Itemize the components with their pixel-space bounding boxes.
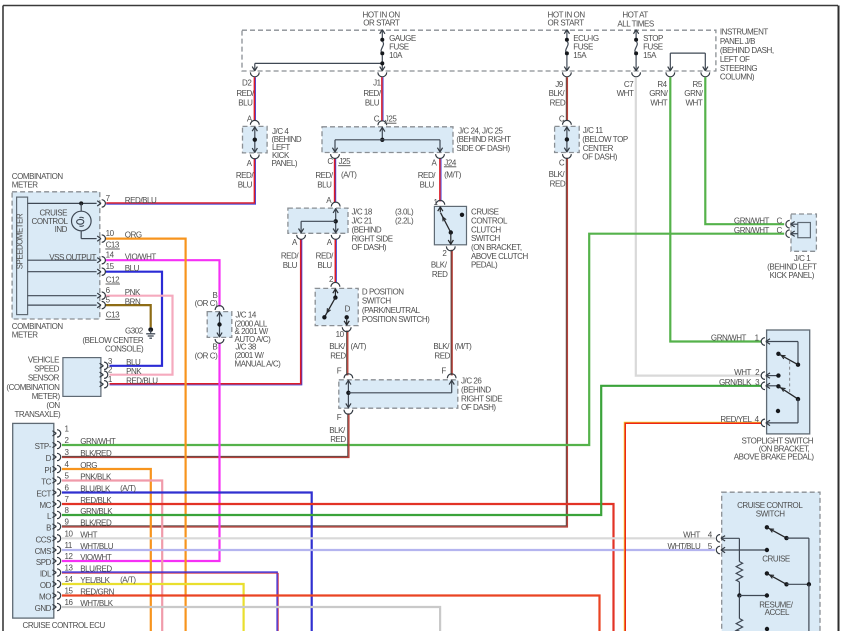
- svg-text:CCS: CCS: [35, 536, 51, 545]
- svg-text:F: F: [441, 367, 446, 376]
- svg-text:CONSOLE): CONSOLE): [105, 345, 144, 354]
- svg-text:VEHICLE: VEHICLE: [28, 356, 59, 365]
- fuse ECU-IG 15A: [563, 30, 599, 77]
- meter pin 14: [97, 251, 156, 264]
- svg-text:SENSOR: SENSOR: [28, 374, 60, 383]
- ECU terminal label D: [46, 454, 52, 463]
- svg-text:10A: 10A: [389, 51, 403, 60]
- svg-text:J9: J9: [555, 80, 564, 89]
- ECU terminal label MC: [39, 501, 51, 510]
- svg-text:BLU: BLU: [125, 264, 140, 273]
- svg-text:J/C 26: J/C 26: [461, 377, 482, 386]
- svg-text:D2: D2: [242, 79, 252, 88]
- wire D2 RED/BLU from J/B to J/C 4: [254, 77, 255, 120]
- ECU pin 16 WHT/BLK: [53, 598, 114, 611]
- svg-text:OF DASH): OF DASH): [461, 403, 496, 412]
- svg-text:F: F: [337, 413, 342, 422]
- wire GRN/WHT from cruise ECU pin 2 up to J/C 1 lower pin C: [62, 234, 784, 445]
- svg-text:(OR C): (OR C): [195, 299, 218, 308]
- speedometer block: [16, 197, 28, 315]
- stoplight switch lower blade: [778, 386, 800, 401]
- svg-text:BRN: BRN: [125, 297, 141, 306]
- svg-text:RED/: RED/: [236, 89, 255, 98]
- svg-text:BLK/: BLK/: [549, 170, 566, 179]
- ECU pin 3 BLK/RED: [53, 448, 112, 461]
- svg-text:ACCEL: ACCEL: [765, 608, 790, 617]
- svg-text:OR START: OR START: [363, 18, 400, 27]
- svg-text:PANEL J/B: PANEL J/B: [720, 37, 755, 46]
- junction connector J/C 26 (BEHIND RIGHT SIDE OF DASH): [329, 367, 502, 445]
- svg-text:(M/T): (M/T): [455, 342, 473, 351]
- svg-text:ORG: ORG: [125, 231, 142, 240]
- svg-text:OD: OD: [40, 581, 52, 590]
- wire label BLK/RED (A/T) above J/C 26 left: [329, 342, 367, 360]
- svg-text:C: C: [777, 226, 783, 235]
- svg-text:RED: RED: [432, 270, 448, 279]
- wire BRN from meter pin 5 to ground G302: [105, 305, 150, 327]
- svg-text:STEERING: STEERING: [720, 64, 758, 73]
- svg-text:CLUTCH: CLUTCH: [471, 225, 501, 234]
- svg-text:10: 10: [65, 529, 74, 538]
- svg-text:(A/T): (A/T): [351, 342, 367, 351]
- svg-text:IDL: IDL: [40, 570, 52, 579]
- ECU terminal label MO: [39, 593, 51, 602]
- svg-text:ABOVE CLUTCH: ABOVE CLUTCH: [471, 252, 529, 261]
- svg-text:RED: RED: [434, 352, 450, 361]
- svg-text:STP-: STP-: [35, 442, 52, 451]
- svg-text:PNK: PNK: [125, 288, 141, 297]
- fuse GAUGE 10A: [378, 30, 416, 77]
- svg-text:WHT: WHT: [80, 530, 97, 539]
- wire RED/BLU (M/T) from J/C 24 to clutch switch pin 1: [440, 158, 441, 201]
- svg-text:14: 14: [106, 251, 115, 260]
- svg-text:POSITION SWITCH): POSITION SWITCH): [362, 315, 430, 324]
- svg-text:GND: GND: [35, 604, 52, 613]
- svg-text:(2.2L): (2.2L): [395, 217, 414, 226]
- svg-text:C13: C13: [106, 240, 120, 249]
- svg-text:RED/BLU: RED/BLU: [125, 196, 157, 205]
- svg-text:YEL/BLK: YEL/BLK: [80, 576, 110, 585]
- ECU terminal label OD: [40, 581, 52, 590]
- svg-text:WHT/BLK: WHT/BLK: [80, 599, 114, 608]
- svg-text:COLUMN): COLUMN): [720, 73, 755, 82]
- terminal J1 label: [363, 79, 382, 108]
- wire GRN/BLK from cruise ECU pin 8 to stoplight switch pin 3: [62, 386, 761, 515]
- stoplight switch pin 2: [734, 368, 780, 380]
- svg-text:J25: J25: [339, 157, 352, 166]
- svg-text:IND: IND: [55, 225, 68, 234]
- svg-text:10: 10: [336, 330, 345, 339]
- junction connector J/C 18 (3.0L) / J/C 21 (2.2L): [281, 196, 414, 270]
- ECU pin 5 PNK/BLK: [53, 472, 112, 485]
- svg-text:PI: PI: [44, 466, 51, 475]
- wire C7 WHT from J/B to stoplight switch pin 2: [636, 77, 762, 375]
- svg-text:J/C 21: J/C 21: [352, 217, 373, 226]
- svg-text:FUSE: FUSE: [573, 43, 593, 52]
- svg-text:SWITCH: SWITCH: [471, 234, 501, 243]
- junction J/C 4 box: [243, 120, 268, 159]
- power label HOT IN ON / OR START (gauge fuse): [363, 11, 401, 28]
- svg-text:PANEL): PANEL): [272, 159, 298, 168]
- cruise switch pin 5: [668, 542, 726, 554]
- wire BLK/RED (M/T) from clutch switch pin 2 to J/C 26: [451, 250, 452, 376]
- svg-text:BLU: BLU: [126, 358, 141, 367]
- cruise control ECU box: [13, 423, 106, 630]
- svg-text:(3.0L): (3.0L): [395, 208, 414, 217]
- ECU pin 12 VIO/WHT: [53, 552, 112, 565]
- svg-text:D: D: [46, 454, 52, 463]
- ECU terminal label L: [47, 512, 52, 521]
- ECU terminal label GND: [35, 604, 52, 613]
- svg-text:BLK/RED: BLK/RED: [80, 449, 112, 458]
- svg-text:VIO/WHT: VIO/WHT: [125, 252, 157, 261]
- svg-text:RIGHT SIDE: RIGHT SIDE: [461, 394, 502, 403]
- terminal R5 label: [684, 80, 703, 107]
- svg-text:STOP: STOP: [643, 34, 663, 43]
- svg-text:RIGHT SIDE: RIGHT SIDE: [352, 234, 393, 243]
- svg-text:C: C: [327, 157, 333, 166]
- cruise switch SET/COAST blade (CRUISE): [762, 525, 809, 584]
- svg-text:(OR C): (OR C): [195, 351, 218, 360]
- svg-text:BLU: BLU: [317, 261, 332, 270]
- svg-text:BLU: BLU: [283, 261, 298, 270]
- power label HOT IN ON / OR START (ECU-IG fuse): [548, 11, 586, 28]
- ECU pin 9 BLK/RED: [53, 518, 112, 531]
- svg-text:15: 15: [106, 262, 115, 271]
- wire WHT/BLK from cruise ECU pin 16 down off-page: [62, 607, 440, 631]
- stoplight switch pin 3: [719, 378, 781, 390]
- wire VIO/WHT lower part from J/C 14 to cruise ECU pin 12: [62, 343, 220, 561]
- svg-text:SPD: SPD: [36, 558, 52, 567]
- VSS pin 3: [100, 357, 141, 370]
- svg-text:GRN/: GRN/: [649, 89, 668, 98]
- svg-text:RED/: RED/: [281, 252, 300, 261]
- svg-text:GRN/WHT: GRN/WHT: [734, 226, 770, 235]
- wire RED/BLU from J/C 4 to combination meter pin 7: [106, 158, 255, 204]
- svg-text:12: 12: [65, 552, 74, 561]
- svg-text:(COMBINATION: (COMBINATION: [6, 383, 60, 392]
- wire R5 GRN/WHT from J/B to J/C 1 upper pin C: [705, 77, 784, 224]
- svg-text:C7: C7: [624, 80, 634, 89]
- meter pin 7: [97, 194, 157, 207]
- ECU pin 15 RED/GRN: [53, 587, 115, 600]
- svg-text:VSS OUTPUT: VSS OUTPUT: [49, 253, 96, 262]
- meter internal wires to pins 14 15 6 5: [28, 253, 97, 305]
- junction connector J/C 24, J/C 25 (BEHIND RIGHT SIDE OF DASH): [322, 115, 511, 168]
- svg-text:J/C 18: J/C 18: [352, 208, 373, 217]
- svg-text:(ON: (ON: [46, 401, 60, 410]
- junction J/C 11 box: [555, 120, 580, 158]
- svg-text:C13: C13: [106, 311, 120, 320]
- terminal C7 label: [617, 80, 635, 98]
- svg-text:VIO/WHT: VIO/WHT: [80, 553, 112, 562]
- ECU pin 14 YEL/BLK: [53, 575, 137, 588]
- wire ORG from meter pin 10 down off-page: [105, 239, 185, 631]
- cruise switch internal from pin 5: [722, 548, 769, 552]
- junction J/C 14 box: [207, 306, 232, 344]
- svg-text:WHT: WHT: [617, 89, 634, 98]
- terminal R4 label: [649, 80, 668, 107]
- cruise control clutch switch (on bracket above clutch pedal): [431, 198, 529, 279]
- svg-text:GRN/WHT: GRN/WHT: [711, 334, 747, 343]
- svg-text:C: C: [559, 158, 565, 167]
- svg-text:15A: 15A: [573, 51, 587, 60]
- svg-text:FUSE: FUSE: [389, 43, 409, 52]
- J/B internal bus to R4 and R5: [666, 53, 710, 77]
- wire BLU from meter pin 15 to vehicle speed sensor pin 3: [105, 272, 162, 366]
- power label HOT AT ALL TIMES (stop fuse): [617, 10, 654, 28]
- svg-text:(BELOW CENTER: (BELOW CENTER: [82, 336, 143, 345]
- svg-text:BLU/BLK: BLU/BLK: [80, 485, 111, 494]
- svg-text:J25: J25: [385, 115, 398, 124]
- svg-text:GRN/WHT: GRN/WHT: [734, 216, 770, 225]
- svg-text:10: 10: [106, 229, 115, 238]
- svg-text:GRN/BLK: GRN/BLK: [80, 507, 113, 516]
- svg-text:BLK/RED: BLK/RED: [80, 519, 112, 528]
- D position switch (park/neutral position switch): [315, 275, 430, 339]
- svg-text:LEFT OF: LEFT OF: [720, 55, 750, 64]
- svg-text:HOT AT: HOT AT: [622, 10, 648, 19]
- svg-text:BLK/: BLK/: [329, 342, 346, 351]
- wire PNK/BLK from cruise ECU pin 5 down off-page: [62, 481, 162, 631]
- ECU terminal label IDL: [40, 570, 52, 579]
- svg-text:ECU-IG: ECU-IG: [573, 34, 599, 43]
- meter connector C13 label lower: [106, 311, 121, 320]
- svg-text:RED: RED: [550, 98, 566, 107]
- svg-text:CRUISE CONTROL ECU: CRUISE CONTROL ECU: [23, 621, 106, 630]
- svg-text:RED/: RED/: [236, 171, 255, 180]
- svg-text:RED/BLK: RED/BLK: [80, 496, 112, 505]
- svg-text:RED/GRN: RED/GRN: [80, 588, 114, 597]
- svg-text:SWITCH: SWITCH: [756, 509, 786, 518]
- junction connector J/C 1 (BEHIND LEFT KICK PANEL): [734, 214, 817, 280]
- svg-text:TRANSAXLE): TRANSAXLE): [14, 410, 61, 419]
- svg-text:OR START: OR START: [548, 18, 585, 27]
- stoplight switch pin 1: [711, 334, 798, 365]
- svg-text:(BEHIND DASH,: (BEHIND DASH,: [720, 46, 774, 55]
- svg-text:15A: 15A: [643, 51, 657, 60]
- terminal D2 label: [236, 79, 255, 108]
- svg-text:F: F: [337, 367, 342, 376]
- svg-text:OF DASH): OF DASH): [582, 153, 617, 162]
- svg-text:WHT: WHT: [734, 368, 751, 377]
- ECU terminal label PI: [44, 466, 51, 475]
- wire BLU/RED from cruise ECU pin 13 down off-page: [62, 572, 278, 631]
- svg-text:ECT: ECT: [36, 490, 51, 499]
- meter pin 15: [97, 262, 139, 275]
- instrument panel junction block J/B: [242, 28, 774, 82]
- wire WHT/BLU from cruise ECU pin 11 to cruise control switch pin 5: [62, 549, 715, 551]
- cruise control switch assembly: [722, 492, 820, 631]
- svg-text:RED: RED: [330, 352, 346, 361]
- svg-text:CRUISE: CRUISE: [762, 554, 790, 563]
- svg-text:PEDAL): PEDAL): [471, 261, 498, 270]
- meter pin 5: [97, 296, 141, 309]
- svg-text:KICK PANEL): KICK PANEL): [770, 271, 815, 280]
- wire BLK/RED from J/C 11 down to cruise ECU pin 9: [62, 158, 567, 527]
- ECU pin 6 BLU/BLK: [53, 484, 137, 497]
- svg-text:(M/T): (M/T): [444, 171, 462, 180]
- ECU pin 10 WHT: [53, 529, 98, 542]
- svg-text:14: 14: [65, 575, 74, 584]
- svg-text:WHT: WHT: [650, 98, 667, 107]
- svg-text:PNK/BLK: PNK/BLK: [80, 473, 112, 482]
- stoplight switch mechanical link: [789, 361, 791, 392]
- svg-text:METER: METER: [12, 331, 38, 340]
- svg-text:TC: TC: [41, 478, 51, 487]
- svg-text:BLU/RED: BLU/RED: [80, 565, 112, 574]
- wire PNK from meter pin 6 to vehicle speed sensor pin 2: [105, 296, 172, 375]
- svg-text:BLU: BLU: [420, 180, 435, 189]
- meter pin 6: [97, 286, 141, 299]
- svg-text:J24: J24: [444, 158, 457, 167]
- cruise switch pin 4: [683, 530, 725, 542]
- wire WHT from cruise ECU pin 10 to cruise control switch pin 4: [62, 537, 715, 539]
- svg-text:COMBINATION: COMBINATION: [12, 322, 64, 331]
- stoplight switch lone contact: [776, 409, 780, 413]
- svg-text:C: C: [777, 216, 783, 225]
- svg-text:(PARK/NEUTRAL: (PARK/NEUTRAL: [362, 306, 421, 315]
- svg-text:13: 13: [65, 564, 74, 573]
- svg-text:GRN/WHT: GRN/WHT: [80, 437, 116, 446]
- wire RED/BLU from J/C 18 down-left to vehicle speed sensor pin 1: [110, 239, 302, 385]
- svg-text:SPEEDOMETER: SPEEDOMETER: [16, 213, 25, 269]
- ECU terminal label ECT: [36, 490, 51, 499]
- svg-text:RED/: RED/: [315, 171, 334, 180]
- cruise switch RESUME/ACCEL blade: [759, 571, 811, 631]
- svg-text:CRUISE: CRUISE: [471, 208, 499, 217]
- wire BLU/BLK (A/T) from cruise ECU pin 6 down off-page: [62, 493, 312, 631]
- wire J1 RED/BLU from J/B to J/C 24-J/C 25: [382, 77, 383, 121]
- svg-text:ORG: ORG: [80, 461, 97, 470]
- ECU terminal label CCS: [35, 536, 51, 545]
- svg-text:RED: RED: [550, 179, 566, 188]
- combination meter box: [12, 172, 100, 340]
- ECU pin 1: [53, 424, 70, 437]
- svg-text:BLU: BLU: [317, 180, 332, 189]
- svg-text:J/C 11: J/C 11: [583, 126, 604, 135]
- svg-text:CONTROL: CONTROL: [471, 216, 508, 225]
- svg-text:(A/T): (A/T): [120, 484, 136, 493]
- svg-text:C12: C12: [106, 275, 120, 284]
- wire R4 GRN/WHT from J/B to stoplight switch pin 1: [670, 77, 761, 341]
- svg-text:J1: J1: [373, 79, 382, 88]
- stoplight switch pin 4: [720, 399, 798, 427]
- bus wire from gauge fuse to D2: [250, 61, 384, 76]
- meter connector C13 label: [105, 240, 120, 249]
- svg-text:MO: MO: [39, 593, 51, 602]
- meter pin 10: [97, 229, 142, 242]
- svg-text:BLK/: BLK/: [549, 89, 566, 98]
- svg-text:D: D: [345, 304, 351, 313]
- svg-text:G302: G302: [125, 327, 144, 336]
- wire BLK/RED from J/C 26 pin F to cruise ECU pin 3: [62, 413, 349, 457]
- wire YEL/BLK (A/T) from cruise ECU pin 14 down off-page: [62, 584, 244, 631]
- svg-text:(BEHIND: (BEHIND: [461, 386, 491, 395]
- wire RED/YEL from stoplight switch pin 4 down off-page: [624, 422, 761, 631]
- ECU pin 13 BLU/RED: [53, 564, 113, 577]
- wire ORG from cruise ECU pin 4 down off-page: [62, 469, 151, 631]
- svg-text:BLK/: BLK/: [433, 342, 450, 351]
- svg-text:SWITCH: SWITCH: [362, 297, 392, 306]
- svg-text:B: B: [46, 524, 51, 533]
- svg-text:GRN/: GRN/: [684, 89, 703, 98]
- ECU terminal label CMS: [35, 547, 52, 556]
- terminal J9 label: [549, 80, 566, 108]
- VSS pin 1: [100, 375, 159, 388]
- svg-text:BLU: BLU: [365, 98, 380, 107]
- svg-text:16: 16: [65, 598, 74, 607]
- svg-text:FUSE: FUSE: [643, 43, 663, 52]
- svg-text:SPEED: SPEED: [34, 365, 60, 374]
- vehicle speed sensor (on transaxle): [6, 356, 101, 419]
- svg-text:B: B: [212, 342, 217, 351]
- ECU pin 7 RED/BLK: [53, 495, 113, 508]
- svg-text:BLU: BLU: [238, 98, 253, 107]
- ECU pin 4 ORG: [53, 460, 98, 473]
- ECU terminal label TC: [41, 478, 51, 487]
- meter internal wiring and cruise control indicator lamp: [28, 201, 97, 238]
- svg-text:PNK: PNK: [126, 367, 142, 376]
- svg-text:RED: RED: [330, 435, 346, 444]
- stoplight switch upper blade: [776, 352, 800, 367]
- ground G302: [82, 327, 155, 354]
- wire RED/BLU (A/T) from J/C 25 to J/C 18-J/C 21: [335, 158, 336, 202]
- svg-text:11: 11: [65, 541, 73, 550]
- svg-text:GAUGE: GAUGE: [389, 34, 416, 43]
- ECU terminal label SPD: [36, 558, 52, 567]
- svg-text:MANUAL A/C): MANUAL A/C): [235, 359, 282, 368]
- wire label BLK/RED (M/T) above J/C 26 right: [433, 342, 472, 360]
- svg-text:MC: MC: [39, 501, 51, 510]
- VSS pin 2: [100, 366, 143, 379]
- svg-text:RED/: RED/: [418, 171, 437, 180]
- svg-text:CENTER: CENTER: [583, 144, 614, 153]
- svg-text:CMS: CMS: [35, 547, 52, 556]
- wire RED/BLK from cruise ECU pin 7 down off-page: [62, 504, 614, 631]
- svg-text:(A/T): (A/T): [341, 171, 357, 180]
- wire J9 BLK/RED from J/B to J/C 11: [566, 77, 567, 120]
- svg-text:BLU: BLU: [238, 180, 253, 189]
- wire label RED/BLU (M/T) below J24: [418, 171, 462, 190]
- svg-text:INSTRUMENT: INSTRUMENT: [720, 28, 769, 37]
- ECU pin 2 GRN/WHT: [53, 436, 116, 449]
- stoplight switch (on bracket above brake pedal): [734, 330, 815, 462]
- wire BLK/RED (A/T) from D position switch pin 10 to J/C 26: [347, 331, 348, 376]
- svg-text:R5: R5: [693, 80, 703, 89]
- wire label RED/BLU (A/T) below J25: [315, 171, 357, 190]
- svg-text:C: C: [559, 114, 565, 123]
- svg-text:(BELOW TOP: (BELOW TOP: [582, 135, 628, 144]
- svg-text:RED/BLU: RED/BLU: [126, 376, 158, 385]
- cruise switch internal from pin 4 through resistors: [722, 538, 769, 631]
- svg-text:SIDE OF DASH): SIDE OF DASH): [456, 144, 510, 153]
- svg-text:WHT: WHT: [685, 98, 702, 107]
- svg-text:METER: METER: [12, 181, 38, 190]
- svg-text:BLK/: BLK/: [431, 260, 448, 269]
- wire RED/BLU from J/C 18 to D position switch pin 2: [335, 239, 336, 283]
- svg-text:J/C 14: J/C 14: [235, 310, 256, 319]
- svg-text:C: C: [374, 115, 380, 124]
- svg-text:ABOVE BRAKE PEDAL): ABOVE BRAKE PEDAL): [734, 453, 815, 462]
- cruise switch lower contact dot: [765, 627, 769, 631]
- svg-text:(BEHIND RIGHT: (BEHIND RIGHT: [456, 135, 511, 144]
- svg-text:METER): METER): [32, 392, 61, 401]
- svg-text:WHT: WHT: [683, 530, 700, 539]
- ECU pin 11 WHT/BLU: [53, 541, 114, 554]
- fuse STOP 15A: [632, 30, 663, 77]
- svg-text:J/C 24, J/C 25: J/C 24, J/C 25: [458, 126, 503, 135]
